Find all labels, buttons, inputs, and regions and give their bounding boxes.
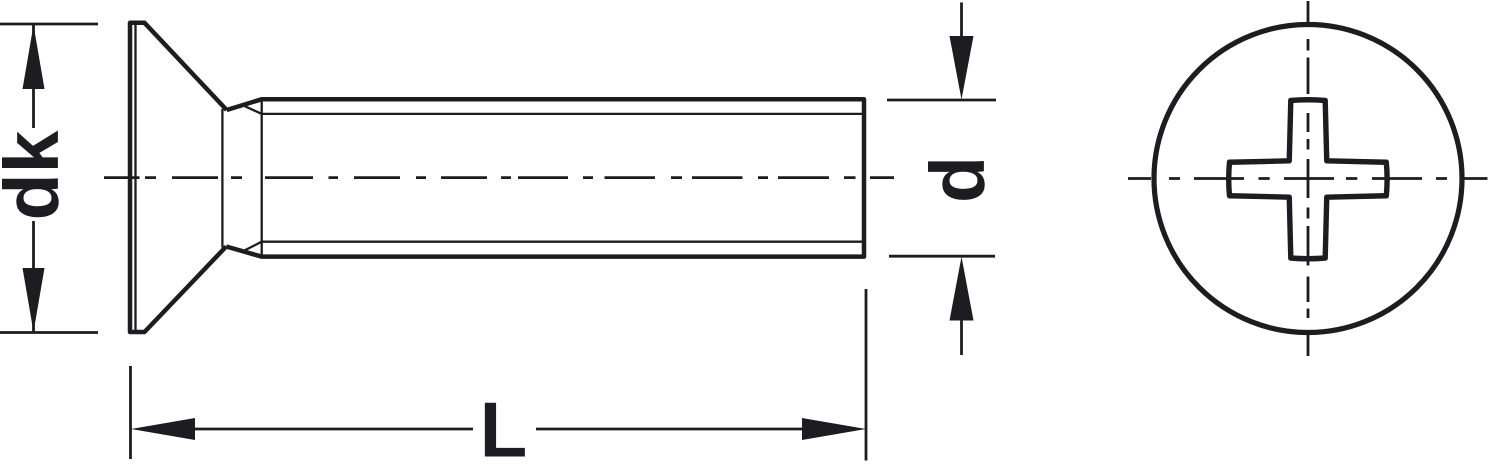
svg-text:dk: dk [0, 130, 75, 220]
svg-text:L: L [480, 386, 528, 464]
svg-text:d: d [915, 156, 1001, 203]
